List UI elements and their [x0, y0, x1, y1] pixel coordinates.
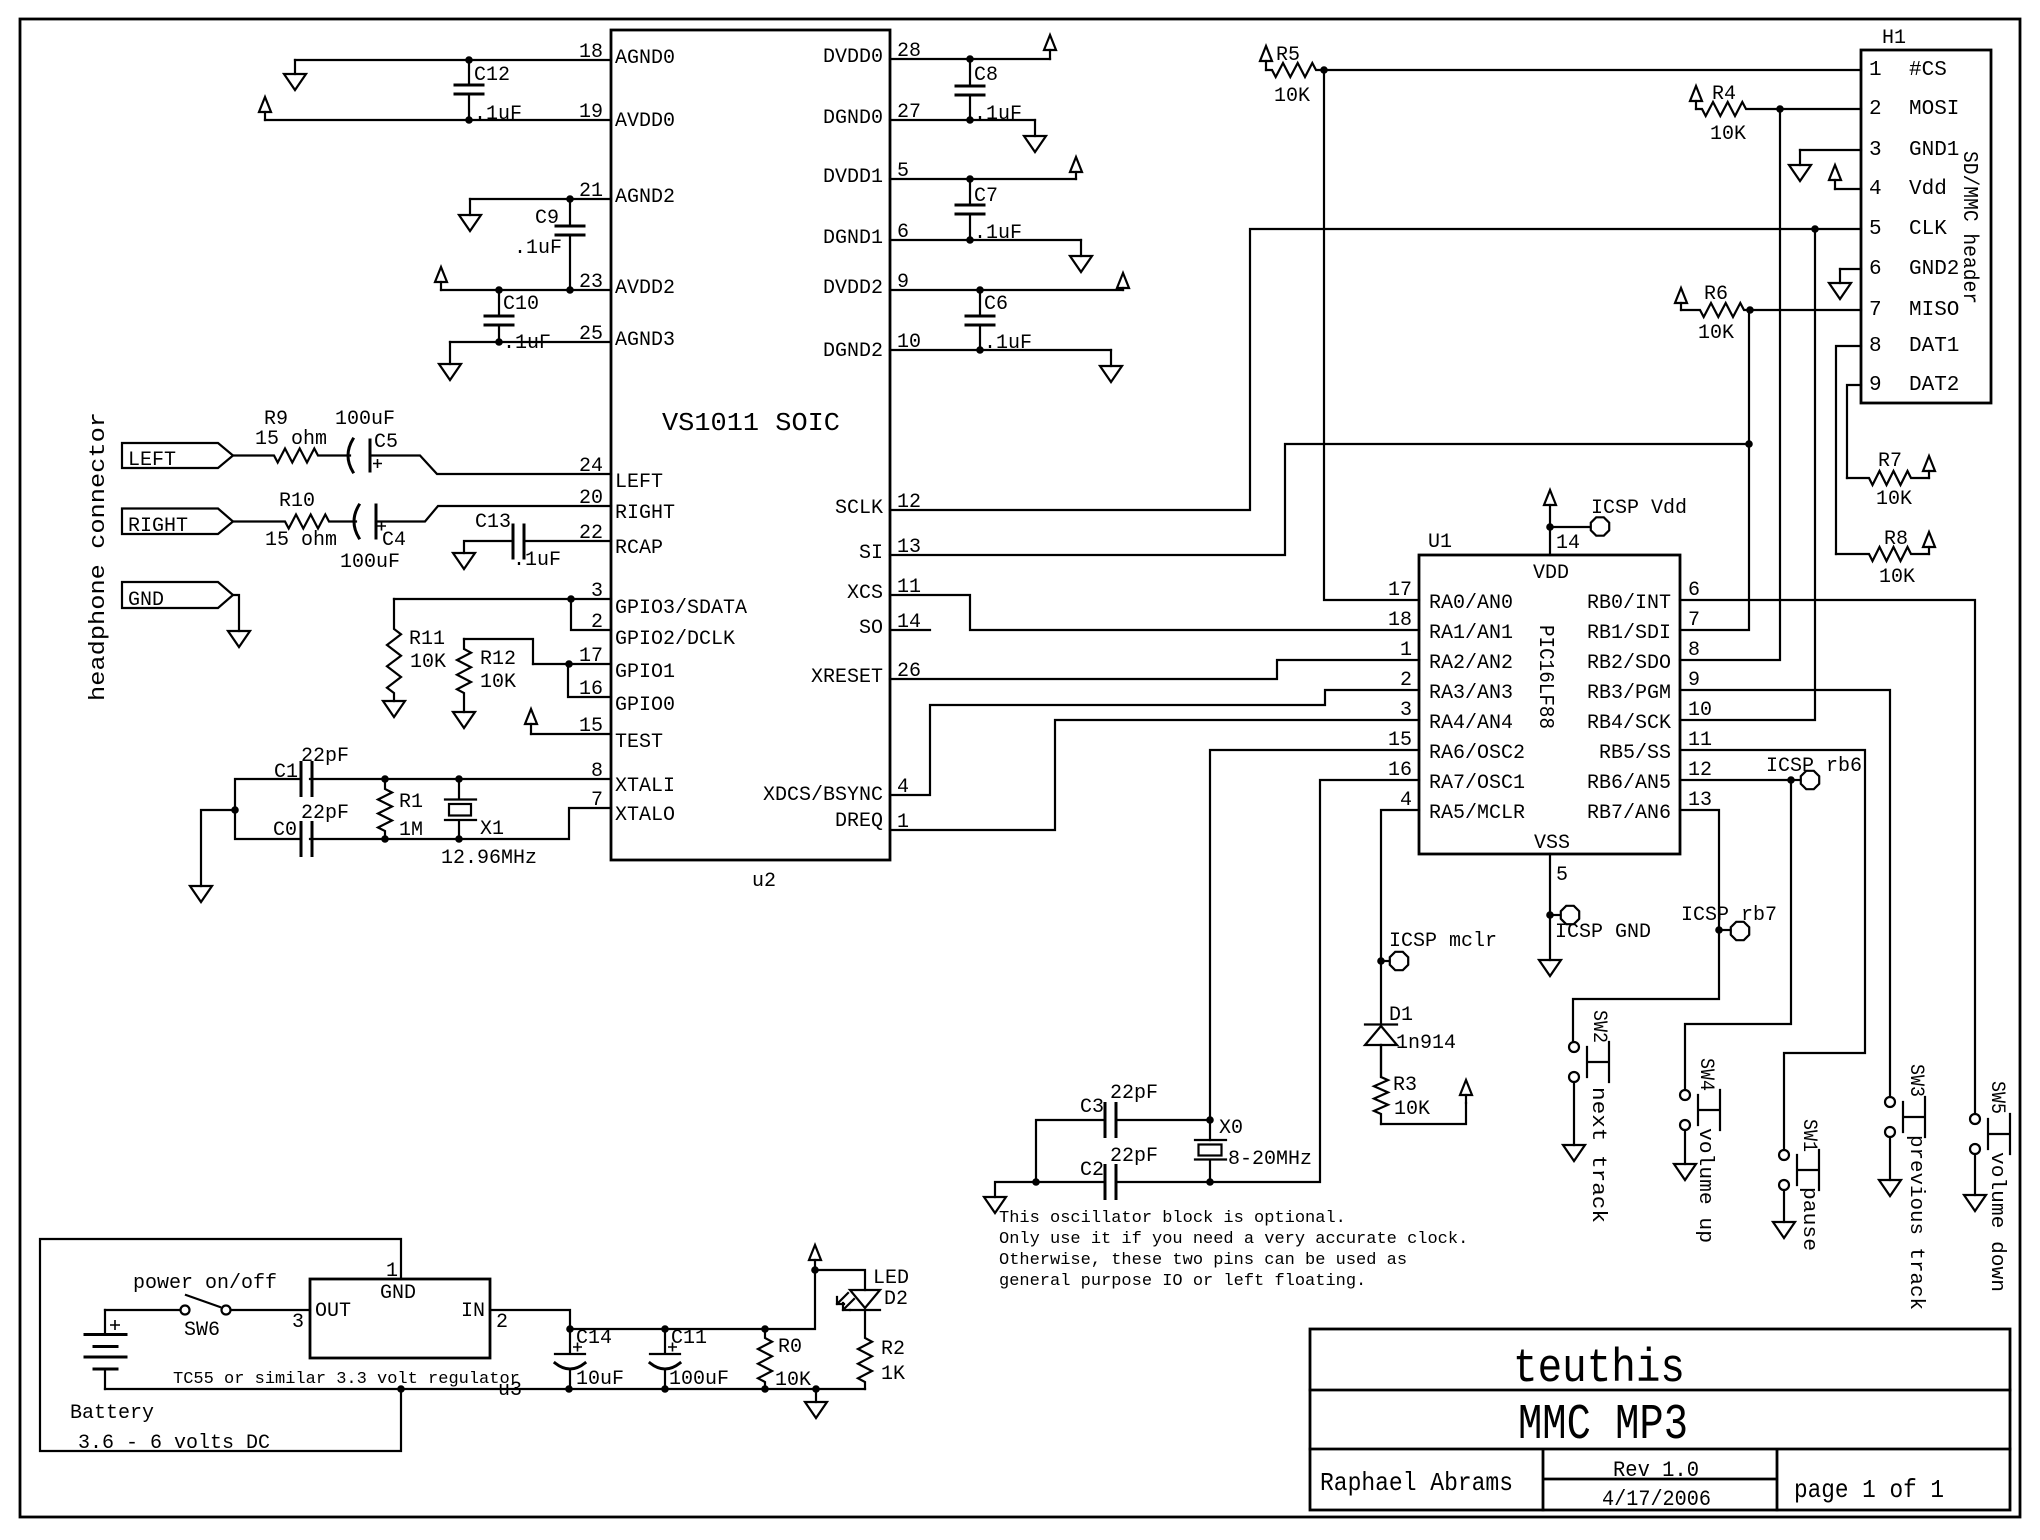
capacitor C9 [569, 199, 571, 226]
svg-text:power on/off: power on/off [133, 1272, 277, 1295]
svg-text:8: 8 [1688, 639, 1700, 662]
svg-text:C9: C9 [535, 207, 559, 230]
wire SO stub [890, 629, 930, 631]
svg-text:C2: C2 [1080, 1159, 1104, 1182]
wire SCLK to H1 CLK [890, 229, 1861, 510]
capacitor C12 [468, 60, 470, 85]
vcc arrow on VDD [1549, 505, 1551, 527]
wire ground rail [105, 1388, 865, 1390]
svg-text:RB5/SS: RB5/SS [1599, 742, 1671, 765]
wire RA6 to osc top [1210, 750, 1419, 1140]
svg-text:GND: GND [380, 1282, 416, 1305]
wire DGND1 pin6 [890, 239, 1081, 241]
junction C12 top [465, 56, 473, 64]
capacitor C5 electrolytic [348, 439, 353, 472]
svg-text:C6: C6 [984, 293, 1008, 316]
junction C10 top [495, 286, 503, 294]
svg-text:Only use it if you need a very: Only use it if you need a very accurate … [999, 1230, 1468, 1249]
wire R6 to H1 pin7 MISO [1750, 309, 1861, 311]
capacitor C10 [498, 290, 500, 316]
svg-text:15 ohm: 15 ohm [255, 428, 327, 451]
svg-text:RB6/AN5: RB6/AN5 [1587, 772, 1671, 795]
svg-text:DVDD1: DVDD1 [823, 166, 883, 189]
wire DGND0 pin27 [890, 119, 1035, 121]
svg-text:RA7/OSC1: RA7/OSC1 [1429, 772, 1525, 795]
svg-text:AGND2: AGND2 [615, 186, 675, 209]
input flag RIGHT [122, 509, 233, 535]
svg-text:.1uF: .1uF [474, 103, 522, 126]
ground on AGND2 [469, 199, 471, 215]
svg-text:ICSP rb7: ICSP rb7 [1681, 904, 1777, 927]
svg-text:2: 2 [1400, 669, 1412, 692]
vcc arrow on AVDD2 [440, 282, 442, 290]
svg-text:C3: C3 [1080, 1096, 1104, 1119]
svg-text:R7: R7 [1878, 450, 1902, 473]
svg-text:GPIO1: GPIO1 [615, 661, 675, 684]
C11 plus sign [668, 1343, 677, 1352]
svg-text:LEFT: LEFT [615, 471, 663, 494]
wire H1 DAT2 [1847, 385, 1861, 478]
svg-text:11: 11 [1688, 729, 1712, 752]
svg-text:TC55 or similar 3.3 volt regul: TC55 or similar 3.3 volt regulator [173, 1370, 520, 1389]
wire H1 DAT1 [1836, 346, 1861, 554]
wire mclr pad stub [1381, 960, 1389, 962]
junction R0 bottom [761, 1385, 769, 1393]
svg-text:GPIO3/SDATA: GPIO3/SDATA [615, 597, 747, 620]
wire AVDD0 pin19 [265, 119, 611, 121]
svg-text:8: 8 [1869, 335, 1882, 358]
svg-text:VS1011 SOIC: VS1011 SOIC [662, 408, 840, 438]
svg-text:4: 4 [1400, 789, 1412, 812]
resistor R11 [387, 599, 401, 701]
wire R3 to vcc [1381, 1103, 1466, 1124]
capacitor C6 [979, 290, 981, 316]
vcc arrow R6 [1680, 303, 1682, 310]
svg-text:4: 4 [1869, 178, 1882, 201]
svg-text:1: 1 [1400, 639, 1412, 662]
svg-text:MOSI: MOSI [1909, 98, 1959, 121]
junction loop to rail [397, 1385, 405, 1393]
svg-text:4/17/2006: 4/17/2006 [1602, 1487, 1711, 1512]
svg-text:CLK: CLK [1909, 218, 1947, 241]
wire U1 VSS pin5 [1549, 854, 1551, 960]
vcc arrow on H1 Vdd [1834, 180, 1836, 189]
wire RA5 to ICSP mclr [1381, 810, 1419, 1024]
input flag LEFT [122, 443, 233, 468]
svg-text:RA4/AN4: RA4/AN4 [1429, 712, 1513, 735]
svg-text:1: 1 [386, 1260, 398, 1283]
wire VDD to ICSP Vdd pad [1550, 526, 1590, 528]
svg-text:RB0/INT: RB0/INT [1587, 592, 1671, 615]
wire RB6 to ICSP rb6 [1680, 779, 1791, 781]
svg-text:15: 15 [1388, 729, 1412, 752]
vcc arrow on DVDD0 [1049, 50, 1051, 59]
svg-text:DGND2: DGND2 [823, 340, 883, 363]
svg-text:10: 10 [1688, 699, 1712, 722]
svg-text:8-20MHz: 8-20MHz [1228, 1148, 1312, 1171]
wire U1 VDD pin14 [1549, 527, 1551, 555]
wire DVDD0 pin28 [890, 58, 1050, 60]
wire battery loop [40, 1239, 401, 1451]
svg-text:1: 1 [1869, 59, 1882, 82]
svg-text:16: 16 [1388, 759, 1412, 782]
wire AGND3 pin25 [450, 341, 611, 343]
svg-text:DAT1: DAT1 [1909, 335, 1959, 358]
svg-text:1K: 1K [881, 1363, 905, 1386]
wire H1 Vdd [1835, 188, 1861, 190]
junction ICSP mclr [1377, 957, 1385, 965]
diode D1 1n914 [1365, 1023, 1397, 1025]
svg-text:13: 13 [1688, 789, 1712, 812]
svg-text:100uF: 100uF [340, 551, 400, 574]
wire battery to SW6 [105, 1309, 180, 1311]
ground on power rail [815, 1389, 817, 1402]
ground on DGND2 [1110, 350, 1112, 366]
vcc arrow R5 [1265, 61, 1267, 70]
svg-text:VSS: VSS [1534, 832, 1570, 855]
svg-text:.1uF: .1uF [974, 103, 1022, 126]
junction C9 bottom [566, 286, 574, 294]
wire C3 right [1116, 1119, 1210, 1121]
switch SW2 [1569, 1042, 1579, 1052]
junction C11 top [661, 1325, 669, 1333]
svg-text:GND1: GND1 [1909, 139, 1959, 162]
wire XTALO pin7 [310, 808, 611, 839]
svg-text:H1: H1 [1882, 27, 1906, 50]
svg-text:10K: 10K [1876, 488, 1912, 511]
junction vcc LED tap [811, 1266, 819, 1274]
svg-text:R2: R2 [881, 1338, 905, 1361]
svg-text:AVDD0: AVDD0 [615, 110, 675, 133]
ground on SW4 [1684, 1131, 1686, 1164]
wire C13 to ground [464, 541, 513, 553]
svg-text:PIC16LF88: PIC16LF88 [1533, 625, 1556, 729]
wire #CS to RA0 [1324, 70, 1419, 600]
svg-text:9: 9 [1869, 374, 1882, 397]
svg-text:C11: C11 [671, 1327, 707, 1350]
svg-text:Raphael Abrams: Raphael Abrams [1320, 1468, 1513, 1498]
svg-text:R4: R4 [1712, 83, 1736, 106]
capacitor C11 electrolytic [650, 1329, 680, 1354]
svg-text:X0: X0 [1219, 1117, 1243, 1140]
wire SW6 to OUT [231, 1309, 310, 1311]
svg-text:7: 7 [1869, 299, 1882, 322]
junction MISO net [1745, 440, 1753, 448]
capacitor C8 [969, 59, 971, 86]
junction CLK to RB4 [1811, 225, 1819, 233]
svg-text:ICSP GND: ICSP GND [1555, 921, 1651, 944]
wire RCAP pin22 [524, 540, 611, 542]
svg-text:GPIO0: GPIO0 [615, 694, 675, 717]
svg-text:Otherwise, these two pins can: Otherwise, these two pins can be used as [999, 1251, 1407, 1270]
battery plus sign [110, 1320, 120, 1330]
wire TEST pin15 [531, 733, 611, 735]
switch SW4 [1680, 1090, 1690, 1100]
wire R12 top [464, 639, 533, 664]
junction xtal gnd tap [231, 806, 239, 814]
svg-text:C4: C4 [382, 529, 406, 552]
LED D2 [850, 1290, 880, 1308]
wire osc ground tap [995, 1182, 1105, 1197]
regulator u3 box [310, 1279, 490, 1358]
ground on H1 GND1 [1799, 150, 1801, 165]
svg-text:10K: 10K [1710, 123, 1746, 146]
svg-text:R6: R6 [1704, 283, 1728, 306]
svg-text:5: 5 [1556, 864, 1568, 887]
svg-text:2: 2 [1869, 98, 1882, 121]
svg-text:10K: 10K [410, 651, 446, 674]
svg-text:ICSP Vdd: ICSP Vdd [1591, 497, 1687, 520]
svg-text:RA0/AN0: RA0/AN0 [1429, 592, 1513, 615]
vcc arrow R8 [1928, 547, 1930, 554]
svg-text:LED: LED [873, 1267, 909, 1290]
svg-text:6: 6 [1688, 579, 1700, 602]
svg-text:Battery: Battery [70, 1402, 154, 1425]
svg-text:u3: u3 [498, 1379, 522, 1402]
junction GPIO3/GPIO2 [567, 595, 575, 603]
junction C8 bottom [966, 116, 974, 124]
C14 plus sign [573, 1343, 582, 1352]
wire XRESET to RA2 [890, 660, 1419, 679]
wire RB3 to SW3 [1680, 690, 1890, 1096]
wire MISO vertical [1748, 310, 1750, 444]
vcc arrow power [814, 1260, 816, 1270]
wire xtal left link [235, 779, 301, 839]
svg-text:RA5/MCLR: RA5/MCLR [1429, 802, 1525, 825]
svg-text:SW1: SW1 [1797, 1119, 1820, 1152]
capacitor C3 [1105, 1104, 1116, 1137]
capacitor C0 [301, 823, 312, 856]
resistor R2 [858, 1310, 872, 1389]
wire LED anode [815, 1270, 865, 1290]
junction ICSP rb6 [1787, 776, 1795, 784]
ground on osc block [984, 1197, 1006, 1213]
wire top rail [570, 1270, 815, 1329]
svg-text:6: 6 [1869, 258, 1882, 281]
svg-text:RA6/OSC2: RA6/OSC2 [1429, 742, 1525, 765]
wire XTALI pin8 [310, 778, 611, 780]
svg-text:10uF: 10uF [576, 1368, 624, 1391]
wire C3 to C2 left link [1036, 1120, 1105, 1182]
svg-text:C8: C8 [974, 64, 998, 87]
svg-text:DAT2: DAT2 [1909, 374, 1959, 397]
svg-text:2: 2 [496, 1311, 508, 1334]
svg-text:.1uF: .1uF [513, 549, 561, 572]
ICSP mclr pad [1390, 952, 1408, 970]
ground on SW1 [1783, 1191, 1785, 1222]
svg-text:SO: SO [859, 617, 883, 640]
svg-text:RB4/SCK: RB4/SCK [1587, 712, 1671, 735]
junction osc bottom [1206, 1178, 1214, 1186]
IC U1 PIC16LF88 box [1419, 555, 1680, 854]
svg-text:AVDD2: AVDD2 [615, 277, 675, 300]
svg-text:22pF: 22pF [301, 802, 349, 825]
ground on R12 [453, 712, 475, 728]
capacitor C1 [301, 763, 312, 796]
resistor R8 [1836, 547, 1929, 561]
wire C2 right [1116, 1181, 1210, 1183]
svg-text:general purpose IO or left flo: general purpose IO or left floating. [999, 1272, 1366, 1291]
ground on AGND0 [294, 60, 296, 74]
svg-text:10K: 10K [1698, 322, 1734, 345]
svg-text:SW3: SW3 [1904, 1064, 1927, 1097]
wire H1 GND2 [1840, 268, 1861, 270]
svg-text:AGND3: AGND3 [615, 329, 675, 352]
svg-text:XCS: XCS [847, 582, 883, 605]
wire GPIO3 pin3 [394, 598, 611, 600]
svg-text:100uF: 100uF [669, 1368, 729, 1391]
ground on SW5 [1974, 1155, 1976, 1195]
svg-text:22pF: 22pF [1110, 1145, 1158, 1168]
resistor R1 [378, 779, 392, 839]
svg-text:VDD: VDD [1533, 562, 1569, 585]
svg-text:XTALI: XTALI [615, 775, 675, 798]
junction R6 net [1746, 306, 1754, 314]
svg-text:C13: C13 [475, 511, 511, 534]
svg-text:SW4: SW4 [1694, 1058, 1717, 1091]
svg-text:R5: R5 [1276, 44, 1300, 67]
wire DGND2 pin10 [890, 349, 1111, 351]
svg-text:R3: R3 [1393, 1074, 1417, 1097]
vcc arrow on DVDD1 [1075, 172, 1077, 179]
svg-text:22pF: 22pF [301, 745, 349, 768]
svg-text:.1uF: .1uF [974, 222, 1022, 245]
svg-text:SI: SI [859, 542, 883, 565]
svg-text:RB3/PGM: RB3/PGM [1587, 682, 1671, 705]
crystal X0 [1195, 1140, 1226, 1182]
ground xtal block [190, 886, 212, 902]
wire DVDD2 pin9 [890, 289, 1123, 291]
wire rb6 to SW4 [1685, 780, 1791, 1089]
svg-text:U1: U1 [1428, 531, 1452, 554]
wire GPIO0 pin16 [568, 664, 611, 697]
svg-text:MMC MP3: MMC MP3 [1518, 1397, 1688, 1454]
resistor R4 [1696, 102, 1780, 116]
capacitor C14 electrolytic [555, 1329, 585, 1354]
svg-text:headphone connector: headphone connector [86, 412, 111, 701]
junction C10 bottom [495, 338, 503, 346]
svg-text:AGND0: AGND0 [615, 47, 675, 70]
svg-text:15 ohm: 15 ohm [265, 529, 337, 552]
vcc arrow on R3 [1465, 1095, 1467, 1103]
resistor R0 [758, 1329, 772, 1389]
switch SW5 [1970, 1114, 1980, 1124]
svg-text:R1: R1 [399, 791, 423, 814]
vcc arrow on TEST [530, 724, 532, 734]
crystal X1 [445, 779, 476, 839]
wire AGND0 pin18 [295, 59, 611, 61]
svg-text:DVDD0: DVDD0 [823, 46, 883, 69]
svg-text:C5: C5 [374, 431, 398, 454]
vcc arrow R4 [1695, 101, 1697, 109]
svg-text:RA2/AN2: RA2/AN2 [1429, 652, 1513, 675]
resistor R10 [233, 515, 356, 529]
IC u2 VS1011 box [611, 30, 890, 860]
svg-text:17: 17 [1388, 579, 1412, 602]
junction C8 top [966, 55, 974, 63]
wire MOSI to RB2 [1680, 109, 1780, 660]
wire CLK to RB4 [1680, 229, 1815, 720]
svg-text:ICSP rb6: ICSP rb6 [1766, 755, 1862, 778]
junction ICSP rb7 [1715, 926, 1723, 934]
svg-text:C1: C1 [274, 761, 298, 784]
svg-text:IN: IN [461, 1300, 485, 1323]
wire GPIO1 pin17 [533, 663, 611, 665]
resistor R5 [1266, 63, 1324, 77]
svg-text:RB7/AN6: RB7/AN6 [1587, 802, 1671, 825]
junction R0 top [761, 1325, 769, 1333]
svg-text:1M: 1M [399, 819, 423, 842]
svg-text:#CS: #CS [1909, 59, 1947, 82]
input flag GND [122, 582, 233, 608]
ground on DGND1 [1080, 240, 1082, 256]
svg-text:R0: R0 [778, 1336, 802, 1359]
svg-text:R12: R12 [480, 648, 516, 671]
svg-text:This oscillator block is optio: This oscillator block is optional. [999, 1209, 1346, 1228]
svg-text:GPIO2/DCLK: GPIO2/DCLK [615, 628, 735, 651]
svg-text:GND: GND [128, 589, 164, 612]
wire IN to rail [490, 1310, 570, 1329]
junction C9 top [566, 195, 574, 203]
junction R1 top [381, 775, 389, 783]
junction GPIO1/GPIO0 [565, 660, 573, 668]
wire GND flag [233, 595, 239, 631]
wire SI to MISO net [890, 444, 1749, 555]
junction C6 bottom [976, 346, 984, 354]
svg-text:RB2/SDO: RB2/SDO [1587, 652, 1671, 675]
resistor R6 [1681, 303, 1750, 317]
wire RIGHT to pin20 [376, 506, 611, 522]
title block lines [1310, 1390, 2010, 1510]
ground on GND flag [228, 631, 250, 647]
svg-text:9: 9 [1688, 669, 1700, 692]
wire DVDD1 pin5 [890, 178, 1076, 180]
wire RB1 to MISO net [1680, 444, 1749, 630]
svg-text:LEFT: LEFT [128, 449, 176, 472]
junction VSS [1546, 911, 1554, 919]
capacitor C13 [513, 525, 524, 558]
switch SW6 power [181, 1306, 190, 1315]
svg-text:GND2: GND2 [1909, 258, 1959, 281]
ground on DGND0 [1034, 120, 1036, 136]
junction osc top [1206, 1116, 1214, 1124]
wire R5 to H1 pin1 #CS [1324, 69, 1861, 71]
ground on H1 GND2 [1839, 269, 1841, 283]
wire VSS to ICSP GND pad [1550, 914, 1560, 916]
svg-text:C12: C12 [474, 64, 510, 87]
ground on SW2 [1573, 1083, 1575, 1145]
svg-text:SD/MMC header: SD/MMC header [1957, 151, 1980, 304]
svg-text:.1uF: .1uF [503, 332, 551, 355]
svg-text:C7: C7 [974, 185, 998, 208]
svg-text:RB1/SDI: RB1/SDI [1587, 622, 1671, 645]
wire rb6 pad stub [1791, 779, 1800, 781]
ICSP GND pad [1561, 906, 1579, 924]
svg-text:Rev 1.0: Rev 1.0 [1613, 1458, 1699, 1483]
wire RB5 to SW1 [1680, 750, 1865, 1149]
resistor R9 [233, 449, 350, 463]
svg-text:12: 12 [1688, 759, 1712, 782]
svg-text:previous track: previous track [1904, 1135, 1927, 1310]
wire H1 GND1 [1800, 149, 1861, 151]
svg-text:3: 3 [1400, 699, 1412, 722]
resistor R7 [1847, 471, 1929, 485]
wire LEFT to pin24 [370, 456, 611, 475]
junction C7 bottom [966, 236, 974, 244]
svg-text:C10: C10 [503, 293, 539, 316]
junction R5 net [1320, 66, 1328, 74]
svg-text:10K: 10K [1879, 566, 1915, 589]
